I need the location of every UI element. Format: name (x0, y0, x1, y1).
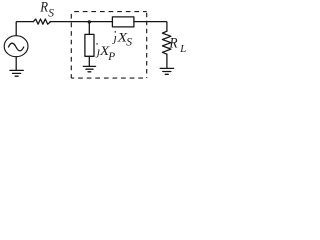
wire resistor RS to series box (50, 21, 112, 23)
dashed box top edge (71, 11, 146, 13)
svg-text:ȷ: ȷ (112, 30, 117, 44)
wire RL to ground (166, 54, 168, 68)
impedance box jXP (85, 34, 94, 56)
node junction wire down (88, 22, 90, 35)
dashed box left edge (70, 12, 72, 79)
ground under jXP (83, 66, 95, 71)
svg-text:L: L (179, 43, 186, 55)
resistor RL zigzag (162, 31, 171, 54)
dashed box bottom edge (71, 77, 146, 79)
ground under RL (160, 68, 173, 74)
svg-text:P: P (107, 49, 115, 63)
ground under source (10, 70, 23, 76)
node A junction dot (88, 20, 91, 23)
sine wave inside source (9, 43, 24, 51)
svg-text:S: S (48, 7, 54, 19)
impedance box jXS (112, 17, 133, 27)
svg-text:R: R (169, 35, 178, 51)
dashed box right edge (146, 12, 148, 79)
resistor RS zigzag (33, 19, 50, 24)
svg-text:S: S (126, 36, 132, 48)
wire series box to load corner (134, 22, 167, 32)
dashed matching network box (71, 12, 146, 79)
AC source V (4, 36, 28, 57)
wire shunt box to ground (88, 56, 90, 66)
wire top-left corner to source top (16, 22, 33, 36)
svg-text:R: R (39, 0, 48, 16)
wire source bottom to ground (15, 57, 17, 70)
